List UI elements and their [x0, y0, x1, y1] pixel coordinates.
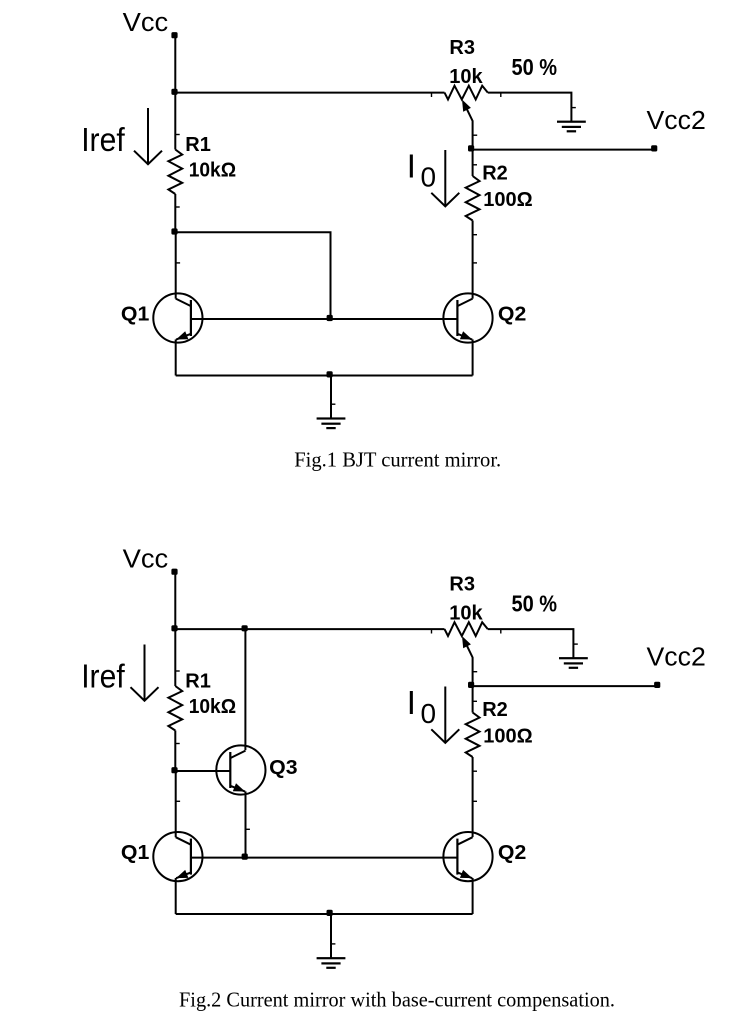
svg-text:I: I: [407, 684, 416, 721]
pin tick Q2 collector (fig2): [473, 801, 477, 802]
label R2 (fig1): [482, 162, 508, 184]
svg-text:Q1: Q1: [121, 303, 149, 325]
svg-text:R3: R3: [449, 37, 475, 59]
transistor Q3 body: [216, 745, 265, 794]
svg-text:Fig.2 Current mirror with base: Fig.2 Current mirror with base-current c…: [179, 987, 615, 1011]
node Vcc terminal (fig1): [171, 32, 177, 38]
wire R3 right to ground (fig1): [488, 93, 572, 122]
wire base rail Q1-Q2 (fig1): [192, 318, 458, 320]
wire emitter rail (fig1): [176, 375, 473, 377]
svg-text:R1: R1: [185, 671, 211, 693]
label R3 (fig1): [449, 37, 475, 59]
ground bottom (fig1): [317, 417, 346, 429]
wire R2 top (fig1): [472, 150, 474, 176]
node junction Q3 collector on top rail (fig2): [242, 625, 248, 631]
wire Q2 emitter down (fig1): [472, 339, 474, 375]
arrow I0 (fig1): [431, 150, 459, 206]
node junction Q3 emitter on base rail (fig2): [242, 854, 248, 860]
pin tick R3 right (fig2): [500, 630, 501, 634]
svg-text:Q2: Q2: [498, 303, 526, 325]
pin tick R3 wiper (fig2): [473, 671, 477, 672]
svg-text:0: 0: [421, 162, 437, 193]
pin tick R1 top (fig2): [176, 670, 180, 671]
current label 0 subscript (fig2): [421, 698, 437, 729]
value label 50 % (fig2): [512, 590, 558, 617]
net label Vcc2 (fig1): [647, 107, 706, 135]
svg-text:Vcc2: Vcc2: [647, 644, 706, 672]
node junction R1 bottom / Q3 base (fig2): [171, 767, 177, 773]
svg-text:Q3: Q3: [269, 757, 297, 779]
ground right (fig2): [559, 657, 588, 669]
resistor R1 zigzag (fig2): [168, 686, 182, 731]
wire R1 junction to diode link (fig1): [175, 232, 330, 319]
current label I (fig1): [407, 148, 416, 185]
arrow I0 (fig2): [431, 687, 459, 743]
wire Vcc down to R1 (fig1): [174, 36, 176, 150]
wire Q1 collector lead (fig2): [175, 771, 177, 837]
svg-text:100Ω: 100Ω: [483, 189, 532, 211]
net label Vcc (fig2): [123, 545, 169, 573]
svg-text:R2: R2: [482, 162, 508, 184]
potentiometer R3 wiper arrow (fig1): [462, 100, 473, 150]
value label 100&#937; R2 (fig2): [483, 725, 532, 747]
wire top rail (fig1): [175, 92, 444, 94]
transistor Q2 body: [443, 832, 492, 881]
pin tick Q1 collector (fig1): [176, 262, 180, 263]
svg-text:10kΩ: 10kΩ: [189, 159, 236, 181]
pin tick R3 left (fig1): [431, 93, 432, 97]
svg-text:R2: R2: [482, 699, 508, 721]
node junction wiper/R2/Vcc2 (fig2): [468, 682, 474, 688]
ground right (fig1): [557, 121, 586, 133]
label R1 (fig1): [185, 134, 211, 156]
pin tick Q2 collector (fig1): [473, 262, 477, 263]
wire Q2 emitter down (fig2): [472, 878, 474, 914]
current label I (fig2): [407, 684, 416, 721]
pin tick R3 wiper (fig1): [473, 135, 477, 136]
wire ground stem (fig2): [330, 914, 332, 958]
current label Iref (fig2): [81, 658, 125, 695]
wire R2 top (fig2): [472, 686, 474, 712]
node junction top rail (fig1): [171, 89, 177, 95]
pin tick R2 top (fig2): [473, 701, 477, 702]
current label 0 subscript (fig1): [421, 162, 437, 193]
value label 10k&#937; R1 (fig2): [189, 696, 236, 718]
net label Vcc (fig1): [123, 9, 169, 37]
svg-text:50 %: 50 %: [512, 54, 558, 81]
node Vcc terminal (fig2): [171, 569, 177, 575]
resistor R2 zigzag (fig1): [466, 176, 480, 221]
transistor Q1 body: [153, 832, 202, 881]
pin tick R2 bottom (fig1): [473, 234, 477, 235]
wire top rail (fig2): [175, 628, 444, 630]
svg-text:50 %: 50 %: [512, 590, 558, 617]
caption Fig.2: [179, 987, 615, 1011]
wire R2 to Q2 collector (fig1): [472, 221, 474, 299]
wire Q1 collector lead (fig1): [175, 232, 177, 298]
value label 10k R3 (fig2): [449, 603, 483, 625]
wire emitter rail (fig2): [176, 913, 473, 915]
svg-text:Iref: Iref: [81, 121, 125, 158]
wire Q1 emitter down (fig1): [175, 339, 177, 375]
potentiometer R3 wiper arrow (fig2): [462, 636, 473, 686]
pin tick R3 right (fig1): [500, 93, 501, 97]
caption Fig.1: [294, 448, 501, 472]
svg-text:Vcc2: Vcc2: [647, 107, 706, 135]
wire Q3 collector drop (fig2): [244, 629, 246, 750]
wire Q1 emitter down (fig2): [175, 878, 177, 914]
pin tick R2 top (fig1): [473, 164, 477, 165]
pin tick R1 top (fig1): [176, 134, 180, 135]
svg-text:Vcc: Vcc: [123, 545, 169, 573]
label Q1: [121, 842, 149, 864]
resistor R2 zigzag (fig2): [466, 713, 480, 758]
arrow Iref (fig1): [134, 108, 162, 164]
node junction base rail (fig1): [327, 315, 333, 321]
svg-text:I: I: [407, 148, 416, 185]
node junction R1 bottom (fig1): [171, 228, 177, 234]
label Q2: [498, 303, 526, 325]
value label 100&#937; R2 (fig1): [483, 189, 532, 211]
wire Q3 emitter down (fig2): [245, 791, 247, 857]
svg-text:100Ω: 100Ω: [483, 725, 532, 747]
wire base rail Q1-Q2 (fig2): [192, 857, 458, 859]
pin tick R1 bottom (fig2): [176, 743, 180, 744]
value label 10k&#937; R1 (fig1): [189, 159, 236, 181]
wire R1 junction to Q3 base (fig2): [175, 770, 230, 772]
pin tick ground stem (fig2): [331, 943, 335, 944]
value label 50 % (fig1): [512, 54, 558, 81]
wire R1 bottom (fig1): [174, 194, 176, 232]
transistor Q1 body: [153, 293, 202, 342]
svg-text:Q1: Q1: [121, 842, 149, 864]
node junction emitter rail (fig1): [327, 371, 333, 377]
svg-text:10kΩ: 10kΩ: [189, 696, 236, 718]
node Vcc2 terminal (fig2): [654, 682, 660, 688]
pin tick ground right stem (fig2): [574, 643, 578, 644]
svg-text:R3: R3: [449, 574, 475, 596]
label R2 (fig2): [482, 699, 508, 721]
label R3 (fig2): [449, 574, 475, 596]
label Q3: [269, 757, 297, 779]
pin tick Q3 emitter (fig2): [246, 829, 250, 830]
pin tick ground stem (fig1): [331, 404, 335, 405]
wire R1 bottom (fig2): [174, 731, 176, 772]
potentiometer R3 zigzag (fig2): [445, 622, 488, 636]
pin tick ground right stem (fig1): [572, 107, 576, 108]
pin tick R2 bottom (fig2): [473, 771, 477, 772]
label R1 (fig2): [185, 671, 211, 693]
ground bottom (fig2): [317, 957, 346, 969]
svg-text:Fig.1 BJT current mirror.: Fig.1 BJT current mirror.: [294, 448, 501, 472]
svg-text:Q2: Q2: [498, 842, 526, 864]
value label 10k R3 (fig1): [449, 66, 483, 88]
potentiometer R3 zigzag (fig1): [445, 86, 488, 100]
transistor Q2 body: [443, 293, 492, 342]
wire to Vcc2 (fig2): [472, 685, 658, 687]
wire to Vcc2 (fig1): [472, 149, 655, 151]
arrow Iref (fig2): [131, 645, 159, 701]
wire Vcc down to R1 (fig2): [174, 573, 176, 687]
node junction top rail (fig2): [171, 625, 177, 631]
pin tick R3 left (fig2): [431, 630, 432, 634]
label Q1: [121, 303, 149, 325]
wire R2 to Q2 collector (fig2): [472, 757, 474, 837]
pin tick Q1 collector (fig2): [176, 801, 180, 802]
node Vcc2 terminal (fig1): [651, 145, 657, 151]
label Q2: [498, 842, 526, 864]
svg-text:R1: R1: [185, 134, 211, 156]
wire R3 right to ground (fig2): [488, 629, 574, 658]
node junction emitter rail (fig2): [327, 910, 333, 916]
svg-text:0: 0: [421, 698, 437, 729]
svg-text:Vcc: Vcc: [123, 9, 169, 37]
current label Iref (fig1): [81, 121, 125, 158]
svg-text:Iref: Iref: [81, 658, 125, 695]
net label Vcc2 (fig2): [647, 644, 706, 672]
node junction wiper/R2/Vcc2 (fig1): [468, 145, 474, 151]
pin tick R1 bottom (fig1): [176, 206, 180, 207]
resistor R1 zigzag (fig1): [168, 150, 182, 195]
wire ground stem (fig1): [330, 376, 332, 419]
